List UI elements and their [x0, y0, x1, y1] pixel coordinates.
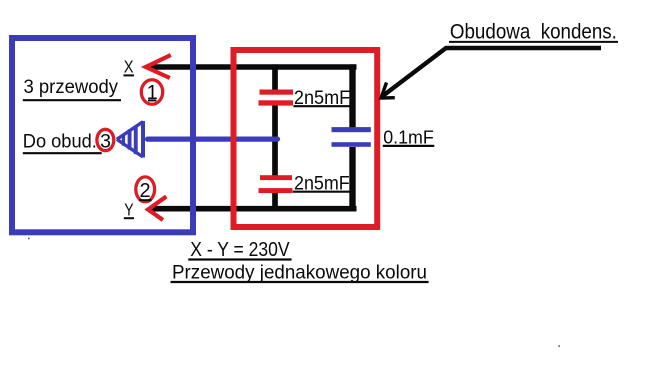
label X - Y = 230V	[188, 238, 291, 261]
label 3 przewody	[23, 77, 121, 100]
wire right vertical lower segment	[349, 147, 355, 211]
label Y	[124, 200, 134, 220]
red capacitor housing box	[234, 50, 378, 227]
label Przewody jednakowego koloru	[171, 262, 429, 284]
wire left vertical branch upper	[272, 64, 278, 92]
svg-text:Przewody jednakowego koloru: Przewody jednakowego koloru	[172, 262, 427, 284]
capacitor C3 value label 0.1mF	[383, 127, 435, 148]
capacitor C2 2n5mF lower plates	[259, 175, 293, 193]
capacitor C1 2n5mF upper plates	[259, 90, 294, 106]
leader line to capacitor housing	[382, 48, 601, 97]
circled terminal number 3	[97, 129, 114, 152]
wire right vertical upper segment	[349, 64, 355, 127]
stray ink dot right	[558, 345, 560, 347]
capacitor C3 0.1mF plates	[332, 127, 371, 147]
svg-text:Obudowa kondens.: Obudowa kondens.	[450, 20, 617, 44]
circled terminal number 1	[141, 80, 162, 105]
svg-text:X: X	[124, 56, 134, 76]
leader arrowhead	[381, 83, 395, 99]
wire bottom Y line	[150, 206, 357, 212]
capacitor C1 value label 2n5mF	[293, 88, 350, 109]
arrowhead at X terminal	[146, 55, 171, 78]
wire left vertical branch middle	[272, 103, 278, 177]
svg-text:Do obud.: Do obud.	[23, 131, 97, 152]
svg-text:0.1mF: 0.1mF	[383, 127, 434, 148]
svg-text:3 przewody: 3 przewody	[24, 77, 119, 98]
svg-text:X - Y = 230V: X - Y = 230V	[190, 238, 290, 261]
label Do obud.	[23, 131, 102, 153]
stray ink dot left	[28, 238, 30, 240]
svg-text:3: 3	[100, 130, 111, 152]
svg-text:2: 2	[139, 180, 150, 202]
blue terminal box	[12, 38, 193, 232]
wire blue chassis lead	[148, 137, 278, 142]
arrowhead at Y terminal	[148, 197, 166, 221]
label X	[123, 56, 134, 76]
chassis connection symbol	[117, 121, 145, 158]
svg-text:Y: Y	[124, 200, 134, 220]
wire top X line	[150, 64, 357, 70]
wire left vertical branch lower	[272, 191, 278, 212]
capacitor C2 value label 2n5mF	[293, 174, 350, 195]
label Obudowa kondens.	[449, 20, 618, 44]
circled terminal number 2	[136, 177, 155, 202]
